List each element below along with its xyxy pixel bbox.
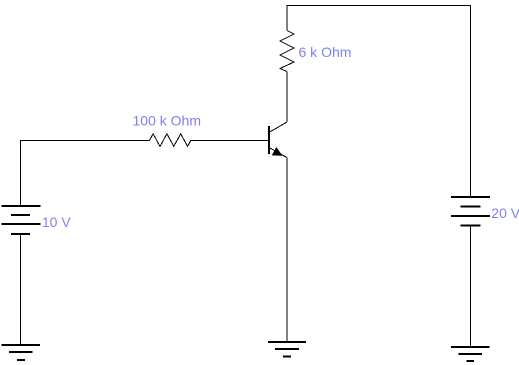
battery V1 10V [2,206,41,234]
transistor Q1 emitter arrow [273,148,282,155]
label 20 V [491,205,519,221]
wire resistor R2 to collector [286,72,288,123]
resistor R2 6k vertical [280,31,294,72]
wire emitter to middle ground [286,158,288,343]
wire top rail to resistor R2 [286,5,288,31]
label 100 k Ohm [133,113,201,129]
transistor Q1 emitter lead [269,148,287,158]
label 10 V [42,214,71,230]
svg-text:6 k Ohm: 6 k Ohm [299,44,352,60]
wire right vertical to 20V battery [470,5,472,197]
ground left [1,345,40,360]
ground right [451,347,490,361]
wire left vertical to 10V battery [20,140,22,206]
svg-text:20 V: 20 V [491,205,519,221]
wire base right segment [191,140,269,142]
svg-text:100 k Ohm: 100 k Ohm [133,113,201,129]
svg-text:10 V: 10 V [42,214,71,230]
ground middle [268,342,306,357]
battery V2 20V [451,197,490,226]
wire top rail [287,5,470,7]
label 6 k Ohm [299,44,352,60]
wire 20V battery to right ground [470,226,472,346]
transistor Q1 base bar [268,126,270,154]
resistor R1 100k horizontal [149,134,190,147]
transistor Q1 collector lead [269,122,287,132]
wire base left segment [21,140,150,142]
wire 10V battery to left ground [20,234,22,345]
